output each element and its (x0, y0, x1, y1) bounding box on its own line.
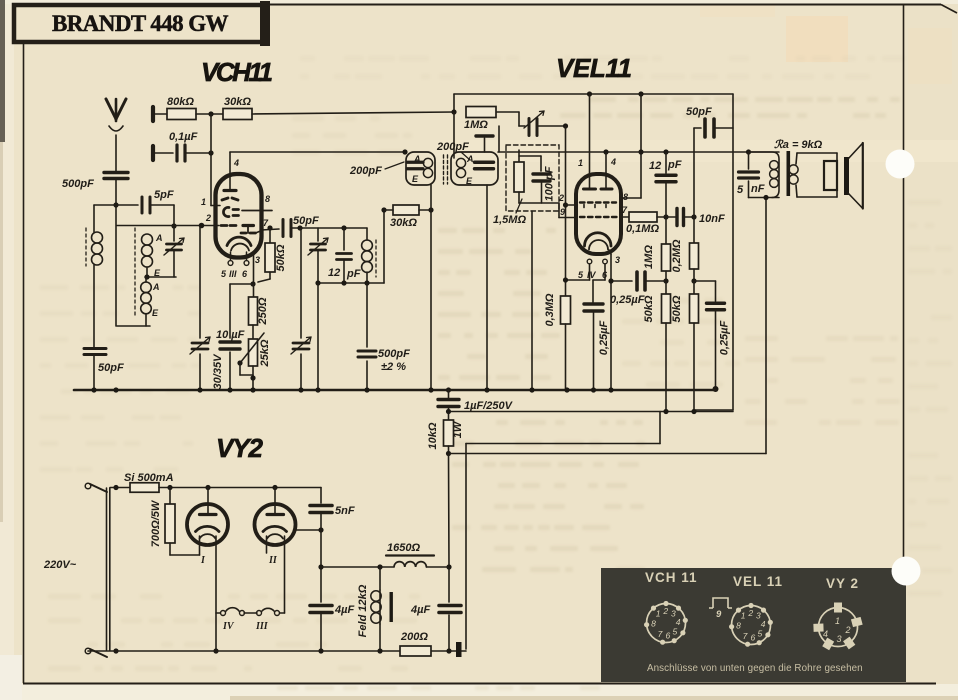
svg-text:E: E (412, 174, 419, 184)
svg-text:VY2: VY2 (216, 433, 264, 463)
svg-text:1650Ω: 1650Ω (387, 542, 420, 554)
svg-text:50kΩ: 50kΩ (275, 244, 287, 271)
svg-text:4µF: 4µF (334, 604, 354, 616)
svg-text:A: A (152, 282, 160, 292)
svg-text:4: 4 (823, 629, 828, 639)
svg-text:50kΩ: 50kΩ (671, 295, 683, 322)
svg-text:BRANDT 448 GW: BRANDT 448 GW (52, 11, 230, 36)
svg-text:10kΩ: 10kΩ (427, 422, 439, 449)
svg-text:A: A (155, 233, 163, 243)
svg-text:nF: nF (751, 183, 765, 195)
svg-text:50pF: 50pF (686, 106, 712, 118)
svg-text:4: 4 (610, 157, 616, 167)
svg-text:A: A (466, 154, 474, 164)
svg-text:VEL 11: VEL 11 (733, 574, 783, 589)
svg-text:6: 6 (666, 630, 671, 640)
svg-text:5nF: 5nF (335, 505, 355, 517)
svg-text:6: 6 (751, 632, 756, 642)
svg-text:A: A (413, 154, 421, 164)
svg-text:500pF: 500pF (378, 348, 410, 360)
svg-text:1: 1 (201, 197, 206, 207)
svg-text:12: 12 (649, 160, 661, 172)
svg-text:2: 2 (845, 625, 851, 635)
svg-text:9: 9 (560, 207, 565, 217)
svg-text:80kΩ: 80kΩ (167, 96, 194, 108)
svg-text:4µF: 4µF (410, 604, 430, 616)
svg-text:250Ω: 250Ω (257, 297, 269, 325)
svg-text:1: 1 (578, 158, 583, 168)
svg-text:pF: pF (346, 268, 361, 280)
svg-text:5: 5 (758, 628, 763, 638)
svg-text:1,5MΩ: 1,5MΩ (493, 214, 526, 226)
svg-text:1: 1 (741, 611, 746, 621)
svg-text:50pF: 50pF (293, 215, 319, 227)
svg-text:VEL11: VEL11 (556, 53, 632, 83)
svg-text:VY 2: VY 2 (826, 576, 859, 591)
svg-text:8: 8 (736, 621, 741, 631)
svg-text:700Ω/5W: 700Ω/5W (150, 499, 162, 547)
svg-text:2: 2 (662, 606, 668, 616)
svg-text:200pF: 200pF (349, 165, 382, 177)
svg-text:30kΩ: 30kΩ (224, 96, 251, 108)
svg-text:220V~: 220V~ (43, 559, 77, 571)
svg-text:III: III (255, 621, 269, 632)
svg-text:0,3MΩ: 0,3MΩ (544, 293, 556, 326)
svg-text:2: 2 (558, 193, 564, 203)
svg-text:10nF: 10nF (699, 213, 725, 225)
svg-text:E: E (154, 268, 161, 278)
svg-text:5: 5 (737, 184, 744, 196)
svg-text:E: E (466, 176, 473, 186)
svg-text:3: 3 (837, 634, 842, 644)
svg-text:IV: IV (222, 621, 235, 632)
svg-text:4: 4 (233, 158, 239, 168)
svg-text:ℛa = 9kΩ: ℛa = 9kΩ (774, 139, 823, 151)
svg-text:7: 7 (658, 629, 663, 639)
svg-text:Si 500mA: Si 500mA (124, 472, 174, 484)
svg-text:1: 1 (835, 616, 840, 626)
svg-text:9: 9 (716, 609, 722, 620)
svg-text:0,25µF: 0,25µF (598, 320, 610, 355)
svg-text:Feld 12kΩ: Feld 12kΩ (357, 584, 369, 637)
svg-text:7: 7 (743, 631, 748, 641)
svg-text:1W: 1W (452, 420, 464, 438)
svg-text:1MΩ: 1MΩ (464, 119, 488, 131)
svg-text:VCH11: VCH11 (201, 57, 273, 87)
svg-text:2: 2 (747, 608, 753, 618)
svg-text:50kΩ: 50kΩ (643, 295, 655, 322)
svg-text:200pF: 200pF (436, 141, 469, 153)
svg-text:III: III (229, 269, 237, 279)
svg-text:50pF: 50pF (98, 362, 124, 374)
svg-text:IV: IV (587, 270, 597, 280)
svg-text:0,1µF: 0,1µF (169, 131, 198, 143)
svg-text:8: 8 (265, 194, 270, 204)
svg-text:0,2MΩ: 0,2MΩ (671, 239, 683, 272)
svg-text:1MΩ: 1MΩ (643, 245, 655, 269)
svg-text:1µF/250V: 1µF/250V (464, 400, 514, 412)
svg-text:2: 2 (205, 213, 211, 223)
svg-text:pF: pF (667, 159, 682, 171)
svg-text:0,25µF: 0,25µF (719, 320, 731, 355)
svg-text:E: E (152, 308, 159, 318)
svg-text:30/35V: 30/35V (212, 353, 224, 390)
svg-text:8: 8 (623, 192, 628, 202)
svg-text:Anschlüsse von unten gegen die: Anschlüsse von unten gegen die Rohre ges… (647, 663, 863, 674)
svg-text:200Ω: 200Ω (400, 631, 428, 643)
svg-text:100 pF: 100 pF (544, 166, 556, 201)
svg-text:±2 %: ±2 % (381, 361, 406, 373)
svg-text:8: 8 (651, 619, 656, 629)
svg-text:500pF: 500pF (62, 178, 94, 190)
svg-text:5: 5 (673, 626, 678, 636)
svg-text:1: 1 (656, 609, 661, 619)
svg-text:3: 3 (615, 255, 620, 265)
svg-text:25kΩ: 25kΩ (259, 339, 271, 367)
svg-text:3: 3 (255, 255, 260, 265)
svg-text:0,1MΩ: 0,1MΩ (626, 223, 659, 235)
svg-text:II: II (268, 555, 278, 566)
svg-text:30kΩ: 30kΩ (390, 217, 417, 229)
svg-text:0,25µF: 0,25µF (610, 294, 645, 306)
svg-text:5pF: 5pF (154, 189, 174, 201)
svg-text:VCH 11: VCH 11 (645, 570, 698, 585)
svg-text:10 µF: 10 µF (216, 329, 245, 341)
svg-text:12: 12 (328, 267, 340, 279)
